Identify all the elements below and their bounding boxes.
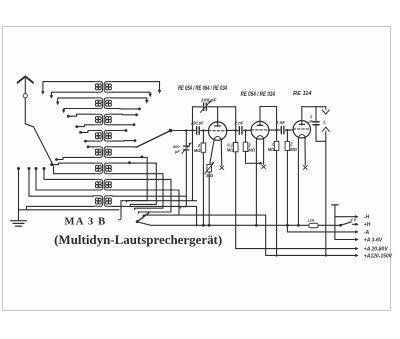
svg-text:RE 114: RE 114 xyxy=(293,91,312,97)
coil L7 primary winding xyxy=(94,179,103,190)
wire row1 top-right xyxy=(112,82,161,94)
wire +A 120-150V bus xyxy=(266,253,393,259)
wire row2 top-right xyxy=(112,98,149,104)
wire +A 3-6V xyxy=(335,237,383,243)
svg-text:MΩ: MΩ xyxy=(227,148,234,153)
band switch lever xyxy=(136,213,149,223)
wire row4 top-right with tap xyxy=(112,129,127,132)
wire V3 filament right with X xyxy=(303,139,307,170)
coil L2 secondary winding xyxy=(104,98,112,109)
coil L8 secondary winding xyxy=(104,196,112,207)
wire row8 top-left xyxy=(29,195,94,197)
wire row7 top-right drop xyxy=(112,179,171,213)
capacitor 250pF xyxy=(190,121,204,135)
wire row7 top-left xyxy=(44,178,94,180)
capacitor 2nF second xyxy=(275,120,285,134)
capacitor 2nF xyxy=(234,120,244,134)
switch 4V xyxy=(339,218,371,228)
capacitor 500pF variable xyxy=(173,143,191,154)
wire row5 bottom-left with tap xyxy=(55,157,94,161)
coil L4 secondary winding xyxy=(104,131,112,142)
wire row2 bottom-left xyxy=(62,109,94,114)
wire row1 top-left xyxy=(41,82,94,95)
wire -H xyxy=(335,215,370,221)
svg-text:MA 3 B: MA 3 B xyxy=(65,216,107,227)
wire row8 bottom-right drop to heater bus xyxy=(112,206,197,225)
wire +A 20-80V bus xyxy=(236,247,389,253)
svg-text:MΩ: MΩ xyxy=(268,147,275,152)
coil L7 secondary winding xyxy=(104,179,112,190)
resistor 1MΩ anode load V2 xyxy=(268,141,279,256)
wire V1 anode to coupling xyxy=(235,107,237,143)
wire row3 bottom-right with tap xyxy=(112,123,135,126)
node grid wire V1 xyxy=(171,130,209,132)
tube V1 xyxy=(208,107,226,141)
coil L6 primary winding xyxy=(94,163,103,174)
wire row5 top-left with tap xyxy=(87,145,94,148)
svg-text:(Multidyn-Lautsprechergerät): (Multidyn-Lautsprechergerät) xyxy=(54,233,222,247)
wire row6 bottom-right drop xyxy=(112,174,163,210)
wire row5 top-right xyxy=(112,146,136,148)
tube V3 xyxy=(293,107,310,139)
wire V1 filament left to potentiometer xyxy=(210,141,214,164)
coil L3 secondary winding xyxy=(104,114,112,125)
svg-text:RE 054 / RE 064 / RE 034: RE 054 / RE 064 / RE 034 xyxy=(178,85,227,92)
antenna xyxy=(18,76,54,173)
node grid wire V3 xyxy=(269,129,293,131)
coil L1 primary winding xyxy=(94,82,103,93)
wire V3 filament left xyxy=(297,139,299,226)
coil L3 primary winding xyxy=(94,114,103,125)
ground bus wire xyxy=(19,209,120,211)
wire row4 top-left with tap xyxy=(79,131,94,134)
wire row1 bottom-left xyxy=(50,92,94,99)
svg-text:2 nF: 2 nF xyxy=(275,120,285,125)
wire jack to +A120 bus xyxy=(325,133,327,256)
title MA 3 B xyxy=(65,216,107,227)
coil L5 secondary winding xyxy=(104,147,112,158)
wire V2 filament left xyxy=(255,140,257,225)
wire row7 bottom-right drop xyxy=(112,190,266,255)
switch wiper arm to grid xyxy=(136,129,172,147)
tube V2 label xyxy=(241,91,276,98)
coil L2 primary winding xyxy=(94,98,103,109)
wire row5 bottom-right with tap and drop xyxy=(112,156,147,203)
wire row2 top-left xyxy=(56,98,94,105)
wire row6 top-right with tap and drop xyxy=(112,161,156,206)
svg-text:100 pF: 100 pF xyxy=(201,98,217,103)
wire row3 bottom-left with tap xyxy=(75,125,93,128)
svg-text:pF: pF xyxy=(174,149,180,154)
resistor 2MΩ grid leak V1 xyxy=(194,129,206,225)
wire row4 bottom-right with tap xyxy=(112,139,136,142)
node grid wire V2 xyxy=(227,129,251,131)
wire row3 top-right with tap xyxy=(112,113,138,116)
tube V3 label xyxy=(293,91,312,97)
resistor 0,1MΩ anode load V1 xyxy=(227,142,238,248)
svg-text:MΩ: MΩ xyxy=(206,173,213,178)
tube V2 xyxy=(251,107,269,140)
wire row8 top-right to 500pF line xyxy=(112,195,186,197)
wire V1 filament right with X xyxy=(220,141,224,170)
wire 500pF branch xyxy=(180,129,187,208)
coil L5 primary winding xyxy=(94,147,103,158)
svg-text:+A 20-80V: +A 20-80V xyxy=(364,247,389,253)
resistor 2MΩ grid leak V3 xyxy=(285,129,298,232)
heater bus +H xyxy=(137,222,340,227)
potentiometer MΩ xyxy=(205,162,214,225)
antenna tap stubs xyxy=(17,167,46,196)
svg-text:MΩ: MΩ xyxy=(194,148,201,153)
wire row6 bottom-left to antenna xyxy=(54,173,94,175)
svg-text:-H: -H xyxy=(364,215,370,221)
svg-text:+H: +H xyxy=(364,222,371,228)
wire tuning loop V1 xyxy=(191,107,235,201)
svg-text:+A120-150V: +A120-150V xyxy=(364,253,393,259)
wire row6 top-left with tap xyxy=(50,163,94,166)
fuse LfA xyxy=(308,219,318,228)
subtitle Multidyn xyxy=(54,233,222,247)
capacitor 100pF variable xyxy=(200,98,216,113)
svg-text:L: L xyxy=(323,120,326,125)
wire row3 top-left with tap xyxy=(67,114,94,117)
capacitor 2uF xyxy=(307,107,325,142)
coil L8 primary winding xyxy=(94,196,103,207)
loudspeaker jack L xyxy=(322,107,329,134)
wire -A xyxy=(287,230,369,236)
wire V2 filament right with X xyxy=(262,140,266,169)
svg-text:-A: -A xyxy=(364,230,370,236)
svg-text:MΩ: MΩ xyxy=(248,148,255,153)
coil L1 secondary winding xyxy=(104,82,112,93)
svg-text:MΩ: MΩ xyxy=(290,147,297,152)
wire row8 bottom-left xyxy=(27,206,94,209)
svg-text:+A 3-6V: +A 3-6V xyxy=(364,237,383,243)
svg-text:LfA: LfA xyxy=(308,219,315,223)
wire row1 bottom-right xyxy=(112,92,152,97)
svg-text:RE 054 / RE 034: RE 054 / RE 034 xyxy=(241,91,276,98)
wire V2 anode loop xyxy=(260,107,277,142)
resistor 2MΩ grid leak V2 xyxy=(243,129,263,165)
ground xyxy=(11,169,27,227)
wire row7 bottom-left xyxy=(36,189,94,191)
svg-text:2 nF: 2 nF xyxy=(234,120,244,125)
coil L6 secondary winding xyxy=(104,163,112,174)
tube V1 label xyxy=(178,85,227,92)
svg-text:4 V: 4 V xyxy=(350,218,357,222)
band switch contact xyxy=(118,201,196,220)
svg-text:μF: μF xyxy=(307,118,313,123)
wire row4 bottom-left with tap xyxy=(84,140,94,143)
terminal post T xyxy=(332,205,338,240)
wire V3 anode to output xyxy=(302,106,326,108)
wire row2 bottom-right with tap xyxy=(112,108,141,111)
coil L4 primary winding xyxy=(94,131,103,142)
